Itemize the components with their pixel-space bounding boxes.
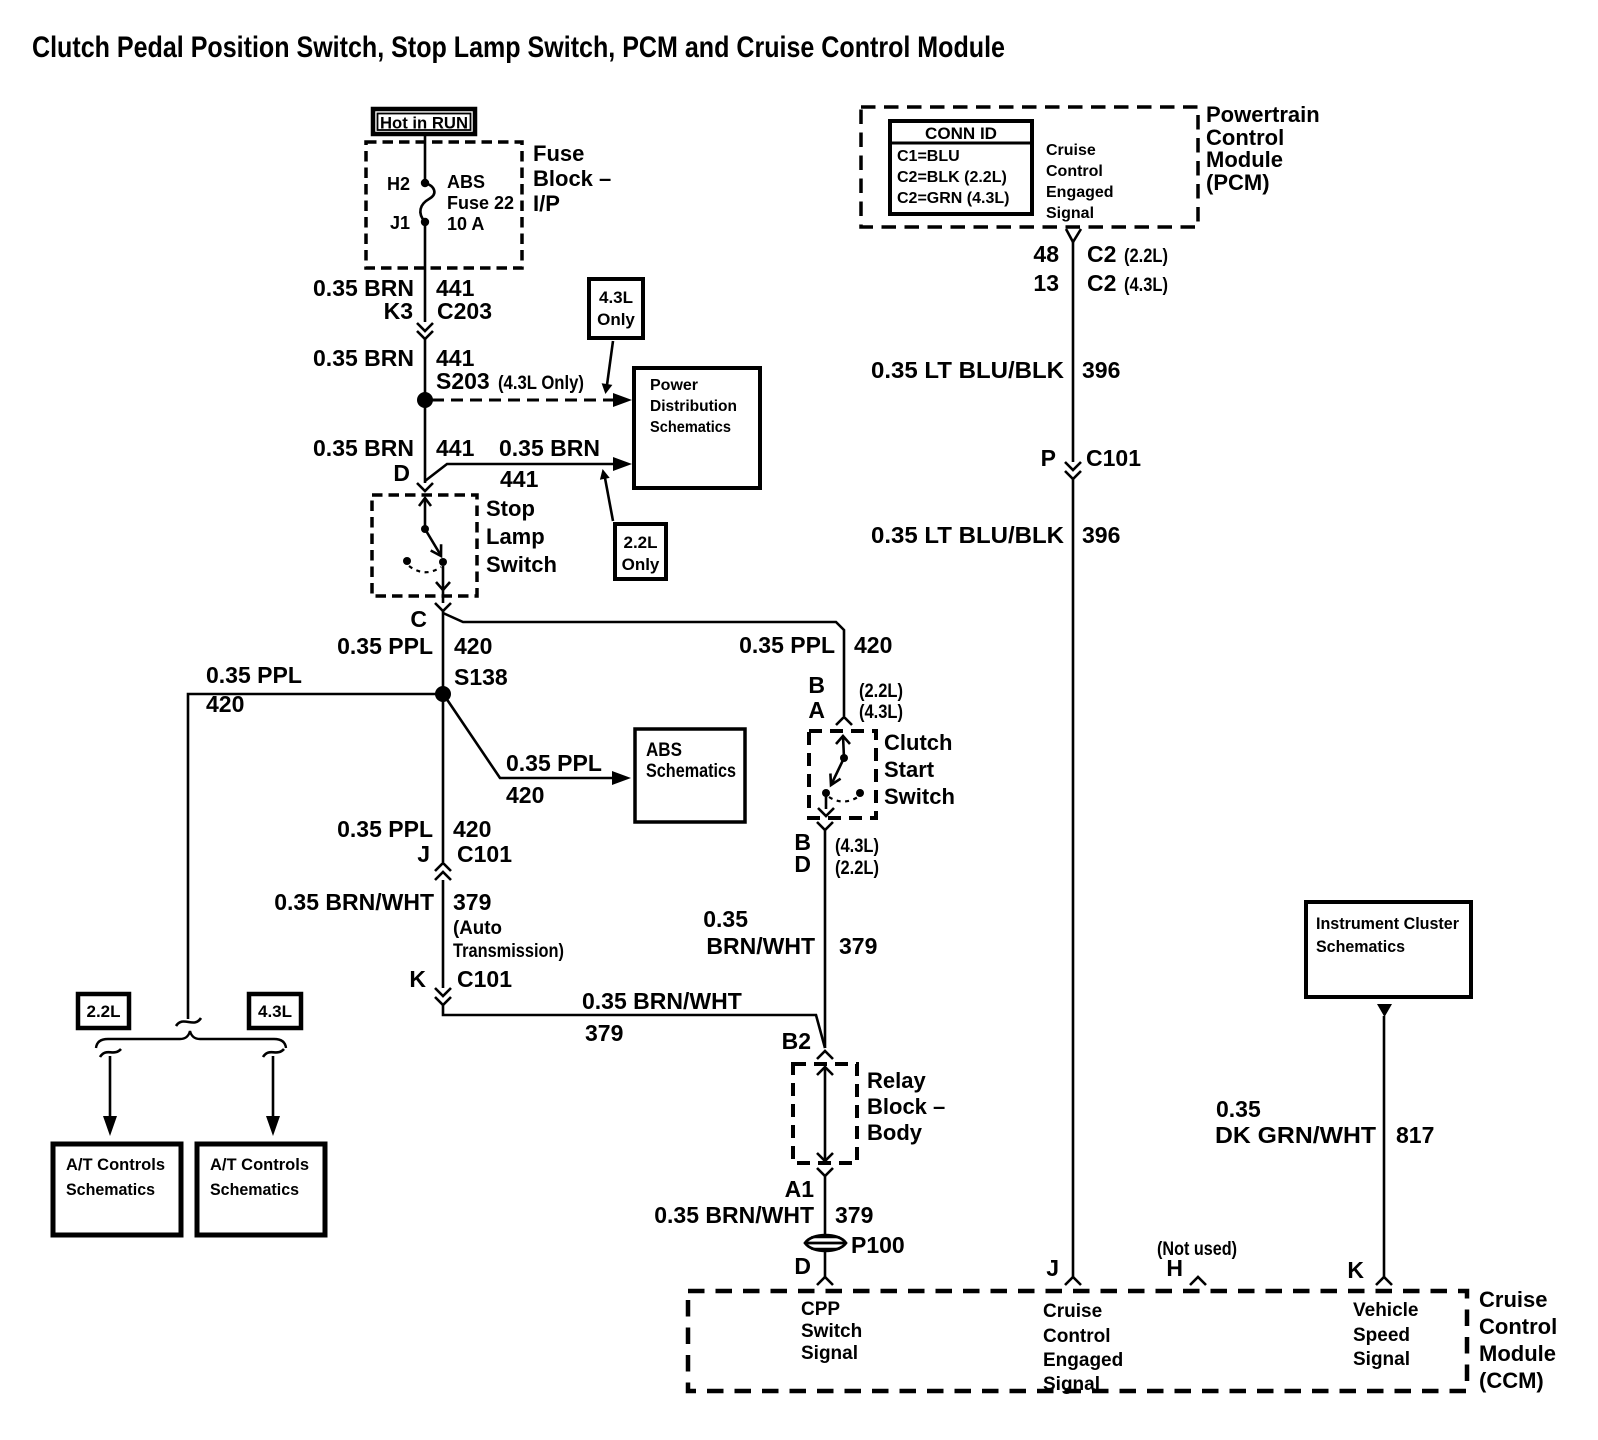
svg-text:C2=GRN (4.3L): C2=GRN (4.3L) — [897, 190, 1009, 207]
svg-text:I/P: I/P — [533, 191, 560, 216]
svg-text:(2.2L): (2.2L) — [859, 681, 903, 702]
wire K to B2 — [443, 1005, 825, 1048]
svg-text:0.35: 0.35 — [1216, 1096, 1261, 1122]
wire A1 to P100 — [824, 1176, 827, 1236]
svg-text:A: A — [808, 697, 825, 723]
PCM output Y connector — [1066, 229, 1081, 242]
svg-text:420: 420 — [453, 816, 491, 842]
svg-text:0.35 PPL: 0.35 PPL — [337, 816, 433, 842]
svg-text:2.2L: 2.2L — [86, 1002, 120, 1021]
svg-text:D: D — [393, 460, 410, 486]
svg-text:C2: C2 — [1087, 241, 1116, 267]
svg-text:A/T Controls: A/T Controls — [210, 1155, 309, 1174]
svg-text:D: D — [794, 1253, 811, 1279]
Stop Lamp Switch dashed box — [372, 495, 477, 596]
stop lamp switch contact left — [403, 557, 411, 565]
svg-text:Instrument Cluster: Instrument Cluster — [1316, 914, 1459, 933]
svg-text:Control: Control — [1479, 1314, 1557, 1339]
svg-text:(4.3L): (4.3L) — [1124, 275, 1168, 296]
svg-text:J: J — [417, 841, 430, 867]
node H2 — [421, 179, 429, 187]
svg-text:441: 441 — [436, 435, 475, 461]
svg-text:Distribution: Distribution — [650, 398, 737, 415]
clutch switch travel arc — [829, 797, 858, 802]
clutch switch contact right — [856, 789, 864, 797]
svg-text:Signal: Signal — [1046, 205, 1094, 222]
svg-text:C2=BLK (2.2L): C2=BLK (2.2L) — [897, 169, 1007, 186]
svg-text:Control: Control — [1046, 163, 1103, 180]
svg-text:Signal: Signal — [1043, 1374, 1100, 1395]
connector A1 — [817, 1168, 833, 1176]
CCM dashed box — [688, 1291, 1467, 1391]
stop lamp switch travel arc — [409, 566, 441, 572]
wire PCM to P — [1072, 242, 1075, 462]
svg-text:Only: Only — [622, 555, 660, 574]
svg-text:48: 48 — [1033, 241, 1059, 267]
svg-text:0.35 BRN/WHT: 0.35 BRN/WHT — [274, 889, 434, 915]
clutch switch common node — [840, 754, 848, 762]
svg-text:H: H — [1166, 1255, 1183, 1281]
svg-text:Body: Body — [867, 1120, 923, 1145]
svg-text:Schematics: Schematics — [650, 419, 731, 436]
svg-text:0.35 LT BLU/BLK: 0.35 LT BLU/BLK — [871, 522, 1064, 548]
svg-text:Engaged: Engaged — [1046, 184, 1114, 201]
left branch wire — [188, 694, 443, 1019]
svg-text:4.3L: 4.3L — [258, 1002, 292, 1021]
svg-text:Cruise: Cruise — [1479, 1287, 1547, 1312]
svg-text:Schematics: Schematics — [646, 761, 736, 782]
svg-text:Schematics: Schematics — [210, 1180, 299, 1199]
svg-text:Signal: Signal — [801, 1343, 858, 1364]
wire to connector C — [442, 590, 445, 603]
clutch switch input arrow — [836, 736, 850, 744]
arrow 4.3L Only to dashed wire — [607, 341, 613, 385]
fuse F22 element — [420, 183, 434, 222]
svg-text:0.35 PPL: 0.35 PPL — [506, 750, 602, 776]
wire C203 to S203 — [424, 339, 427, 400]
svg-text:Signal: Signal — [1353, 1349, 1410, 1370]
svg-text:Lamp: Lamp — [486, 524, 545, 549]
box Instrument Cluster Schematics — [1306, 902, 1471, 997]
svg-text:420: 420 — [454, 633, 492, 659]
svg-text:(4.3L): (4.3L) — [835, 836, 879, 857]
svg-text:(4.3L): (4.3L) — [859, 702, 903, 723]
svg-text:DK GRN/WHT: DK GRN/WHT — [1215, 1122, 1376, 1148]
svg-text:K: K — [409, 966, 426, 992]
svg-text:Relay: Relay — [867, 1068, 926, 1093]
brace — [96, 1031, 286, 1048]
svg-text:Hot in RUN: Hot in RUN — [380, 114, 468, 133]
clutch switch contact left — [822, 789, 830, 797]
ABS branch wire — [446, 698, 612, 778]
svg-text:Vehicle: Vehicle — [1353, 1300, 1419, 1321]
svg-text:Power: Power — [650, 377, 698, 394]
box 4.3L Only — [589, 279, 643, 338]
box A/T Controls Schematics right — [197, 1144, 325, 1235]
svg-text:13: 13 — [1033, 270, 1059, 296]
svg-text:P100: P100 — [851, 1232, 905, 1258]
svg-text:K: K — [1347, 1257, 1364, 1283]
dashed wire S203 to Power Distribution — [432, 399, 613, 402]
stop lamp switch output arrow — [442, 566, 445, 588]
connector B/A chevron — [836, 717, 852, 725]
svg-text:K3: K3 — [384, 298, 413, 324]
svg-text:B: B — [808, 672, 825, 698]
svg-text:C101: C101 — [1086, 445, 1141, 471]
wire J1 to C203 — [424, 222, 427, 322]
svg-text:Powertrain: Powertrain — [1206, 102, 1320, 127]
svg-text:0.35: 0.35 — [703, 906, 748, 932]
svg-text:S203: S203 — [436, 368, 490, 394]
svg-text:0.35 BRN/WHT: 0.35 BRN/WHT — [582, 988, 742, 1014]
left A/T arrow — [100, 1049, 121, 1057]
svg-text:H2: H2 — [387, 174, 410, 194]
stop lamp switch blade — [425, 529, 440, 554]
svg-text:0.35 PPL: 0.35 PPL — [739, 632, 835, 658]
svg-text:C1=BLU: C1=BLU — [897, 148, 960, 165]
connector B/D chevron — [817, 822, 833, 830]
wire J to K — [442, 880, 445, 988]
svg-text:(2.2L): (2.2L) — [835, 858, 879, 879]
svg-text:379: 379 — [585, 1020, 623, 1046]
CONN ID table — [890, 121, 1032, 214]
svg-text:(Auto: (Auto — [453, 918, 502, 939]
wire S203 to D — [424, 400, 427, 483]
svg-text:Transmission): Transmission) — [453, 941, 564, 962]
svg-text:Control: Control — [1043, 1326, 1111, 1347]
svg-text:Fuse: Fuse — [533, 141, 584, 166]
svg-text:CPP: CPP — [801, 1299, 840, 1320]
svg-text:C203: C203 — [437, 298, 492, 324]
svg-text:10 A: 10 A — [447, 214, 484, 234]
stop lamp switch common node — [421, 525, 429, 533]
clutch switch output arrow — [825, 795, 828, 809]
svg-text:Module: Module — [1479, 1341, 1556, 1366]
svg-text:CONN ID: CONN ID — [925, 124, 997, 143]
svg-text:396: 396 — [1082, 522, 1120, 548]
svg-text:Switch: Switch — [801, 1321, 862, 1342]
svg-text:Module: Module — [1206, 147, 1283, 172]
wire P100 to D — [824, 1251, 827, 1277]
svg-text:0.35 LT BLU/BLK: 0.35 LT BLU/BLK — [871, 357, 1064, 383]
svg-text:ABS: ABS — [447, 172, 485, 192]
arrow into instrument cluster — [1377, 1004, 1392, 1017]
svg-text:420: 420 — [854, 632, 892, 658]
svg-text:C: C — [410, 606, 427, 632]
stop lamp switch input arrow — [419, 498, 431, 506]
svg-text:0.35 BRN: 0.35 BRN — [313, 345, 414, 371]
svg-text:Stop: Stop — [486, 496, 535, 521]
svg-text:J1: J1 — [390, 213, 410, 233]
wire from Hot in RUN to fuse — [424, 134, 427, 183]
svg-text:(CCM): (CCM) — [1479, 1368, 1544, 1393]
box 2.2L — [78, 994, 129, 1028]
relay block through arrow — [824, 1068, 827, 1160]
node J1 — [421, 218, 429, 226]
svg-text:P: P — [1041, 445, 1056, 471]
svg-text:420: 420 — [206, 691, 244, 717]
svg-text:Start: Start — [884, 757, 935, 782]
svg-text:0.35 PPL: 0.35 PPL — [337, 633, 433, 659]
svg-text:379: 379 — [839, 933, 877, 959]
box 2.2L Only — [615, 524, 666, 579]
svg-text:J: J — [1046, 1255, 1059, 1281]
svg-text:2.2L: 2.2L — [623, 533, 657, 552]
stop lamp switch contact right — [439, 558, 447, 566]
svg-text:0.35 BRN/WHT: 0.35 BRN/WHT — [654, 1202, 814, 1228]
svg-text:Schematics: Schematics — [66, 1180, 155, 1199]
svg-text:Switch: Switch — [486, 552, 557, 577]
svg-text:C101: C101 — [457, 966, 512, 992]
box ABS Schematics — [635, 729, 745, 822]
right A/T arrow — [263, 1049, 284, 1057]
svg-text:0.35 BRN: 0.35 BRN — [499, 435, 600, 461]
svg-text:0.35 BRN: 0.35 BRN — [313, 435, 414, 461]
box A/T Controls Schematics left — [53, 1144, 181, 1235]
svg-text:Block –: Block – — [533, 166, 611, 191]
wire C to S138 — [442, 611, 445, 862]
Clutch Start Switch dashed box — [809, 731, 876, 818]
svg-text:379: 379 — [453, 889, 491, 915]
wire P to CCM J — [1072, 479, 1075, 1277]
svg-text:(4.3L Only): (4.3L Only) — [498, 373, 584, 394]
svg-text:0.35 PPL: 0.35 PPL — [206, 662, 302, 688]
svg-text:A1: A1 — [785, 1176, 815, 1202]
svg-text:420: 420 — [506, 782, 544, 808]
svg-text:S138: S138 — [454, 664, 508, 690]
svg-text:Speed: Speed — [1353, 1325, 1410, 1346]
svg-text:Clutch: Clutch — [884, 730, 952, 755]
svg-text:Engaged: Engaged — [1043, 1350, 1123, 1371]
svg-text:Only: Only — [597, 310, 635, 329]
svg-text:(PCM): (PCM) — [1206, 170, 1270, 195]
svg-text:817: 817 — [1396, 1122, 1434, 1148]
svg-text:441: 441 — [500, 466, 539, 492]
svg-text:ABS: ABS — [646, 740, 682, 761]
svg-text:Cruise: Cruise — [1046, 142, 1096, 159]
svg-text:BRN/WHT: BRN/WHT — [706, 933, 815, 959]
clutch switch blade — [832, 758, 844, 783]
svg-text:C101: C101 — [457, 841, 512, 867]
svg-text:Schematics: Schematics — [1316, 937, 1405, 956]
box Power Distribution Schematics — [634, 368, 760, 488]
svg-text:Block –: Block – — [867, 1094, 945, 1119]
svg-text:Cruise: Cruise — [1043, 1301, 1102, 1322]
wire instrument cluster to CCM K — [1383, 1016, 1386, 1277]
svg-text:(2.2L): (2.2L) — [1124, 246, 1168, 267]
fuse block dashed box — [366, 142, 522, 268]
svg-text:Clutch Pedal Position Switch,: Clutch Pedal Position Switch, Stop Lamp … — [32, 31, 1005, 64]
Hot in RUN box — [373, 109, 475, 134]
svg-text:4.3L: 4.3L — [599, 288, 633, 307]
svg-text:B2: B2 — [782, 1028, 811, 1054]
svg-text:Switch: Switch — [884, 784, 955, 809]
svg-text:C2: C2 — [1087, 270, 1116, 296]
left branch break symbol — [176, 1018, 201, 1026]
wire clutch switch to B2 — [824, 830, 827, 1048]
svg-text:396: 396 — [1082, 357, 1120, 383]
grommet P100 — [805, 1235, 846, 1251]
svg-text:Fuse 22: Fuse 22 — [447, 193, 514, 213]
svg-text:A/T Controls: A/T Controls — [66, 1155, 165, 1174]
svg-text:D: D — [794, 851, 811, 877]
branch wire to clutch start switch — [443, 613, 844, 716]
arrow 2.2L Only to 441 wire — [605, 478, 613, 521]
Relay Block dashed box — [793, 1064, 857, 1163]
box 4.3L — [249, 994, 301, 1028]
branch wire 441 to Power Distribution — [425, 464, 621, 481]
svg-text:379: 379 — [835, 1202, 873, 1228]
PCM dashed box — [861, 107, 1198, 227]
